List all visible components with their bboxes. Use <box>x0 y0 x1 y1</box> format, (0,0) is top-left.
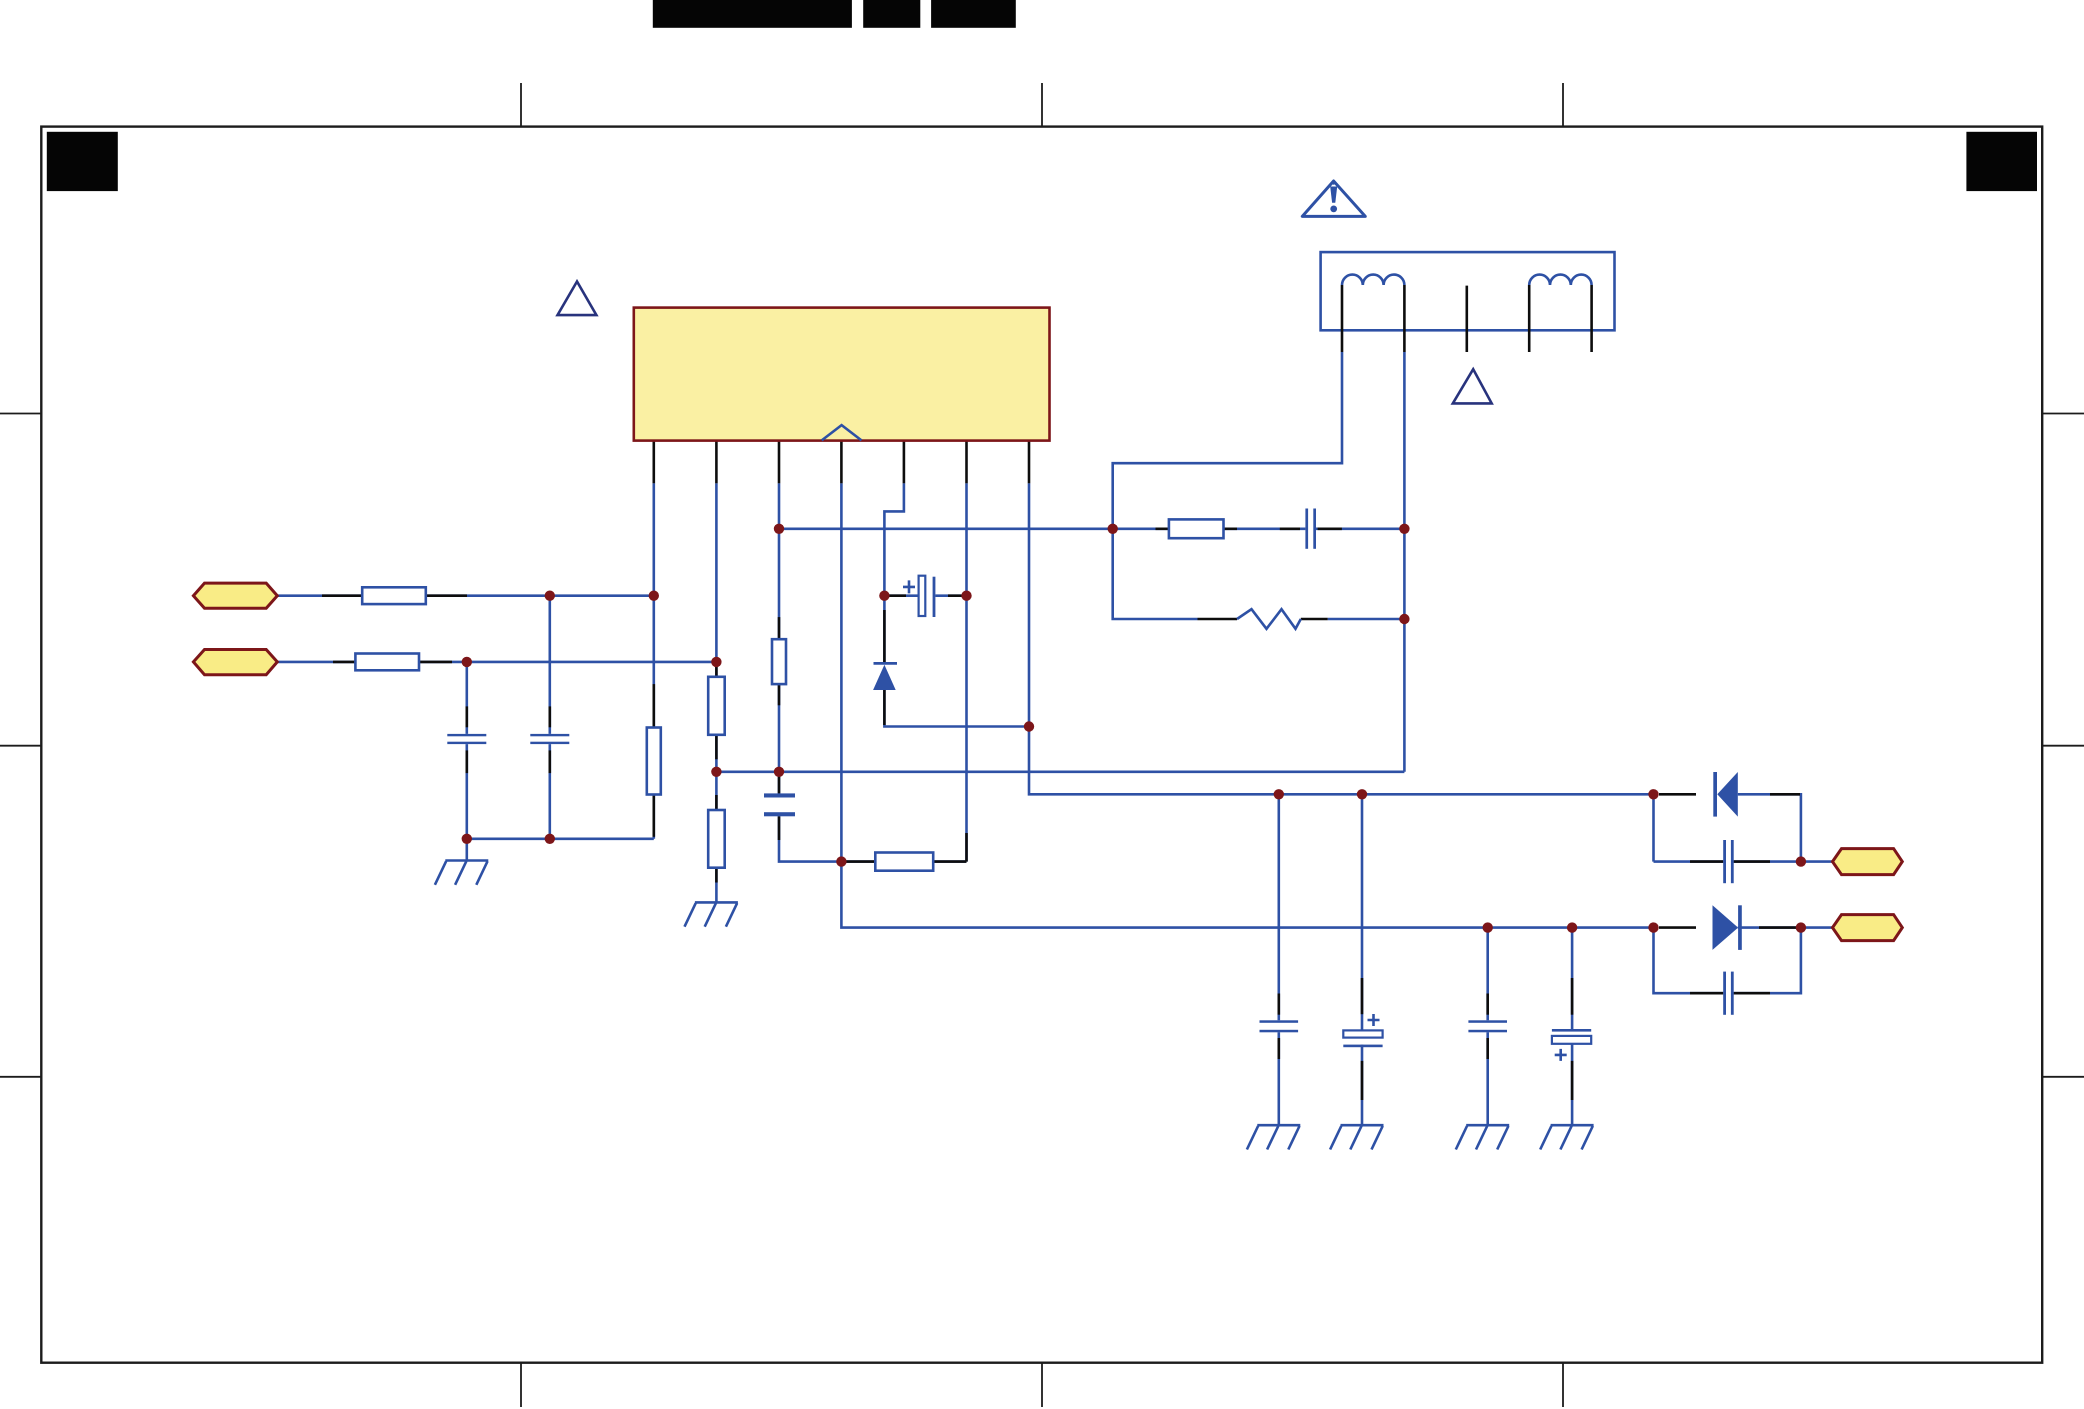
wire: snubber top row R7 C3 <box>779 527 1404 530</box>
wire: row y=771.8 pin2 node to transformer pin line <box>716 770 1404 773</box>
wire: ground rail left <box>467 837 654 840</box>
resistor R8 (zigzag) <box>1237 609 1301 629</box>
wire: snubber bottom row with R8 <box>1113 529 1405 619</box>
resistor R6 <box>772 639 786 684</box>
wire: C1 branch vertical <box>548 596 551 839</box>
capacitor C3 <box>1305 509 1316 549</box>
node junction (466.8,838.8) <box>462 834 472 844</box>
transformer T1 box <box>1321 252 1615 330</box>
node junction (1800.9,927.6) <box>1796 922 1806 932</box>
wire: flag1 net to pin1 of U1 (node A) <box>277 594 654 597</box>
node junction (884.4,595.7) <box>879 591 889 601</box>
wire: ground lead G1 <box>465 839 468 861</box>
wire: D2 parallel-capacitor loop to flag4 <box>1654 928 1833 994</box>
ground G1 <box>435 861 488 885</box>
wire: node C through D3 to pin7 net <box>884 596 1029 727</box>
capacitor C1 <box>530 734 569 744</box>
node junction (779,771.8) <box>774 767 784 777</box>
node junction (653.8,595.7) <box>649 591 659 601</box>
hot-ground triangle on U1 bottom edge <box>822 425 862 440</box>
diode D3 (vertical, cathode up) <box>873 663 897 690</box>
resistor R4 <box>708 677 725 735</box>
connector flag F4 <box>1833 915 1903 941</box>
wire: transformer T1 pin a to snubber node <box>1113 352 1342 529</box>
resistor R5 <box>708 810 725 868</box>
wire: electrolytic C4 link pin5 node to pin6 node <box>884 594 966 597</box>
transformer T1 secondary winding <box>1529 275 1591 285</box>
wire: U1 pin4 vertical and long bottom bus <box>841 483 1653 927</box>
wire: U1 pin1 vertical through R3 to ground rail <box>652 483 655 839</box>
IC U1 (control IC block) <box>634 308 1050 441</box>
note triangle 2 (below transformer) <box>1453 369 1492 403</box>
wire: transformer T1 pin b long vertical <box>1403 352 1406 772</box>
capacitor C11 (parallel with D2) <box>1723 972 1734 1015</box>
wire: U1 pin5 jog to node C <box>884 483 904 595</box>
wire: U1 pin3 vertical through R6,C5 <box>779 483 841 861</box>
diode D2 (cathode right) <box>1713 905 1742 950</box>
resistor R9 <box>875 853 933 871</box>
wire: D1 parallel-capacitor loop to flag3 <box>1654 794 1833 861</box>
capacitor C10 (parallel with D1) <box>1723 840 1734 883</box>
ground G6 <box>1540 1125 1593 1149</box>
wire: C2 branch vertical <box>465 662 468 839</box>
node junction (716.4,771.8) <box>711 767 721 777</box>
wire: flag2 net to pin2 of U1 (node B) <box>277 661 716 664</box>
node junction (549.8,838.8) <box>545 834 555 844</box>
ground G5 <box>1456 1125 1509 1149</box>
wire: U1 pin6 vertical to R9 <box>965 483 968 861</box>
capacitor C8 <box>1468 1020 1507 1032</box>
node junction (1404.4,619) <box>1399 614 1409 624</box>
resistor R1 <box>362 587 426 604</box>
capacitor C4 electrolytic with + <box>903 576 935 617</box>
capacitor C7 electrolytic with + <box>1343 1014 1382 1047</box>
connector flag F3 <box>1833 849 1903 875</box>
ground G3 <box>1247 1125 1300 1149</box>
node junction (1362,794.3) <box>1357 789 1367 799</box>
note triangle 1 (left of U1) <box>558 282 597 316</box>
node junction (1653.5,794.3) <box>1648 789 1658 799</box>
resistor R2 <box>355 654 419 671</box>
node junction (716.4,661.9) <box>711 657 721 667</box>
connector flag F1 <box>193 583 277 608</box>
node junction (779,528.8) <box>774 524 784 534</box>
wire: C8 branch to ground G5 <box>1486 928 1489 1126</box>
transformer T1 pins <box>1342 285 1592 352</box>
node junction (966.5,595.7) <box>961 591 971 601</box>
ground G2 <box>685 902 738 926</box>
wire: R9 row between pin4 bus and pin6 <box>841 860 966 863</box>
wire: C6 branch to ground G3 <box>1278 794 1281 1125</box>
wire: C7 branch to ground G4 <box>1361 794 1364 1125</box>
capacitor C5 <box>764 793 795 816</box>
capacitor C2 <box>447 734 486 744</box>
node junction (466.8,661.9) <box>462 657 472 667</box>
connector flag F2 <box>193 650 277 675</box>
node junction (1029,726.5) <box>1024 721 1034 731</box>
resistor R7 <box>1169 519 1224 538</box>
node junction (1278.8,794.3) <box>1274 789 1284 799</box>
capacitor C9 electrolytic with + <box>1552 1029 1591 1061</box>
capacitor C6 <box>1260 1020 1299 1032</box>
wire: U1 pin2 vertical through R4,R5 to ground G2 <box>715 483 718 902</box>
node junction (1653.5,927.6) <box>1648 922 1658 932</box>
node junction (1404.4,528.8) <box>1399 524 1409 534</box>
node junction (1112.7,528.8) <box>1108 524 1118 534</box>
node junction (1487.7,927.6) <box>1483 922 1493 932</box>
node junction (549.8,595.7) <box>545 591 555 601</box>
node junction (1800.9,861.6) <box>1796 856 1806 866</box>
warning symbol (triangle with exclamation) <box>1302 180 1365 216</box>
transformer T1 primary winding <box>1342 275 1404 285</box>
resistor R3 <box>647 728 661 795</box>
node junction (1572.1,927.6) <box>1567 922 1577 932</box>
diode D1 (cathode left) <box>1713 772 1738 817</box>
black lead segments of components and IC pins <box>322 441 1800 1100</box>
wire: C9 branch to ground G6 <box>1571 928 1574 1126</box>
node junction (841.4,861.6) <box>836 856 846 866</box>
ground G4 <box>1330 1125 1383 1149</box>
wire: U1 pin7 vertical and feedback row <box>1029 483 1654 794</box>
